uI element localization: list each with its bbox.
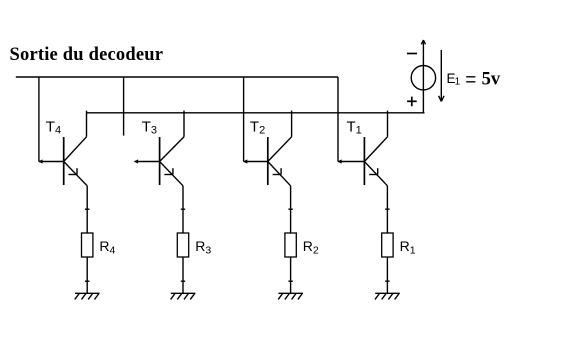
svg-text:Sortie du decodeur: Sortie du decodeur [10, 45, 164, 65]
svg-text:=: = [465, 70, 476, 91]
svg-text:1: 1 [455, 77, 461, 88]
svg-text:5v: 5v [482, 69, 501, 89]
